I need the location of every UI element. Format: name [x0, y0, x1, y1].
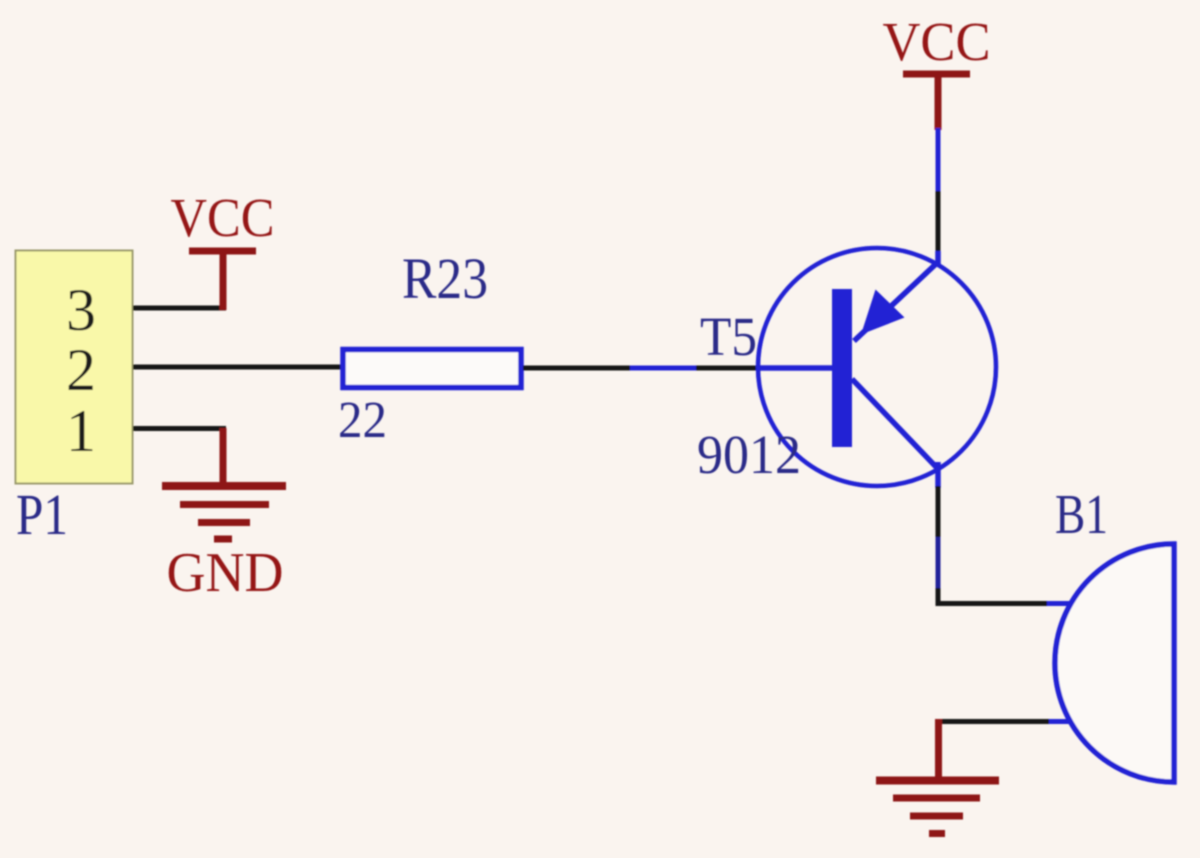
transistor T5 emitter arrow — [861, 290, 905, 335]
ground (right) stub — [935, 719, 942, 781]
ground (right) bar 3 — [910, 813, 963, 820]
wire buzzer bottom to ground (black) — [936, 719, 1049, 724]
wire collector down (black segment) — [936, 486, 941, 539]
ground (right) bar 2 — [893, 795, 980, 802]
wire VCC to emitter (black segment) — [936, 191, 941, 253]
svg-text:B1: B1 — [1055, 484, 1108, 546]
power VCC (left) bar — [189, 248, 256, 255]
ground (left) bar 1 — [162, 482, 286, 490]
svg-text:9012: 9012 — [697, 424, 801, 485]
connector P1 body — [16, 251, 133, 484]
power VCC (left) stub — [220, 251, 227, 310]
svg-text:2: 2 — [66, 337, 96, 403]
ground (left) stub — [220, 428, 227, 487]
wire R23 to base (black segment) — [523, 366, 632, 371]
wire collector down (navy segment) — [936, 537, 941, 590]
ground (left) bar 3 — [198, 519, 250, 526]
wire pin3 to VCC stub — [133, 306, 226, 311]
wire R23 to base (black segment 2) — [696, 366, 759, 371]
svg-text:GND: GND — [167, 542, 284, 604]
transistor T5 base wire (blue, inside circle) — [756, 365, 834, 371]
power VCC (right) bar — [903, 71, 970, 78]
svg-text:22: 22 — [338, 392, 387, 449]
power VCC (right) stub (dark red) — [935, 74, 942, 130]
svg-text:P1: P1 — [16, 482, 68, 547]
svg-text:R23: R23 — [402, 246, 488, 311]
wire collector down (black segment 2) — [936, 588, 941, 606]
transistor T5 emitter line — [854, 262, 938, 341]
svg-text:3: 3 — [66, 277, 96, 343]
wire pin2 to R23 — [133, 365, 341, 370]
wire corner to buzzer top (black) — [936, 601, 1050, 606]
svg-text:VCC: VCC — [171, 187, 275, 248]
wire pin1 to ground — [133, 426, 226, 431]
ground (right) bar 4 — [929, 830, 945, 837]
buzzer B1 — [1055, 544, 1174, 782]
transistor T5 circle — [758, 248, 996, 486]
wire buzzer bottom (blue tip) — [1047, 719, 1072, 724]
ground (left) bar 2 — [180, 501, 269, 508]
junction at circle top (blue) — [935, 251, 941, 266]
wire R23 to base (blue segment) — [630, 366, 698, 371]
ground (right) bar 1 — [876, 777, 999, 785]
transistor T5 base bar — [832, 289, 852, 447]
svg-text:T5: T5 — [700, 306, 757, 367]
svg-text:1: 1 — [66, 398, 96, 464]
svg-text:VCC: VCC — [883, 11, 991, 72]
ground (left) bar 4 — [214, 536, 232, 543]
resistor R23 — [343, 350, 521, 388]
wire to buzzer top (blue tip) — [1047, 601, 1072, 606]
transistor T5 collector line — [852, 379, 939, 470]
junction at circle bottom (blue) — [935, 462, 941, 488]
wire VCC to emitter (blue segment) — [936, 128, 941, 193]
